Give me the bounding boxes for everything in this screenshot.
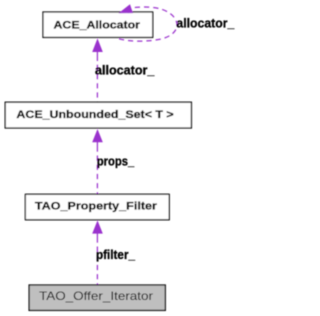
class box ACE_Allocator	[43, 12, 153, 37]
svg-text:props_: props_	[97, 153, 135, 168]
svg-text:TAO_Offer_Iterator: TAO_Offer_Iterator	[39, 290, 153, 303]
wire props_ : TAO_Property_Filter -> ACE_Unbounded_Set	[92, 129, 103, 142]
wire allocator_ : ACE_Unbounded_Set -> ACE_Allocator	[92, 38, 103, 52]
class box TAO_Offer_Iterator (current, grey)	[29, 285, 165, 310]
arrowhead of self-loop	[119, 4, 133, 13]
svg-text:allocator_: allocator_	[95, 63, 155, 78]
class box TAO_Property_Filter	[25, 194, 169, 220]
self-loop wire allocator_ on ACE_Allocator	[119, 7, 177, 41]
svg-text:ACE_Unbounded_Set< T >: ACE_Unbounded_Set< T >	[16, 109, 174, 121]
class box ACE_Unbounded_Set< T >	[5, 102, 191, 128]
svg-text:pfilter_: pfilter_	[96, 247, 136, 262]
svg-text:ACE_Allocator: ACE_Allocator	[54, 20, 141, 32]
wire pfilter_ : TAO_Offer_Iterator -> TAO_Property_Filter	[92, 220, 103, 233]
svg-text:TAO_Property_Filter: TAO_Property_Filter	[35, 201, 158, 213]
svg-text:allocator_: allocator_	[176, 16, 235, 31]
